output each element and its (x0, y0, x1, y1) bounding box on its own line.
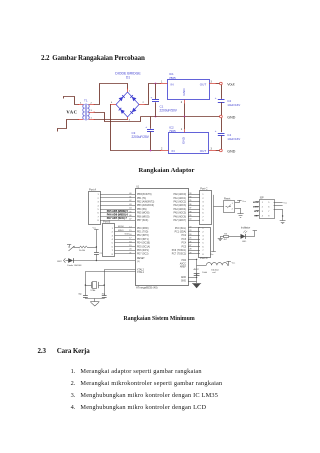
wire reset box pin2 down (235, 208, 241, 214)
svg-text:4: 4 (111, 102, 113, 104)
wire transformer top to bridge AC1 (95, 84, 128, 105)
heading 2.3 Cara Kerja (38, 347, 46, 355)
diode bridge pin numbers (111, 90, 145, 121)
svg-text:2: 2 (202, 198, 204, 200)
wires Port A to U1 (100, 195, 135, 221)
power VCC under Port D (210, 252, 216, 257)
svg-text:PC5: PC5 (182, 246, 187, 248)
list item 3 (71, 392, 76, 399)
svg-text:Port D: Port D (200, 256, 207, 260)
svg-text:3: 3 (112, 235, 114, 237)
svg-text:PB2 (AIN0/INT2): PB2 (AIN0/INT2) (137, 201, 154, 204)
svg-text:1: 1 (91, 117, 93, 119)
svg-text:3: 3 (97, 202, 99, 204)
svg-text:PD5 (OC1A): PD5 (OC1A) (137, 245, 150, 248)
wire U1 XTAL1 to crystal (86, 272, 136, 296)
svg-text:MISO: MISO (253, 206, 259, 208)
ISP right GND stub (274, 209, 284, 220)
resistor R1 reset (78, 246, 87, 252)
crystal X1 (85, 282, 105, 293)
U1 left pin numbers (129, 193, 132, 255)
svg-text:Port B: Port B (103, 220, 110, 224)
svg-text:10uH: 10uH (202, 272, 207, 274)
svg-text:+: + (215, 129, 217, 133)
power VCC AVCC (227, 261, 237, 265)
svg-text:XTAL1: XTAL1 (137, 271, 145, 274)
wire RC junction to resistor (87, 247, 96, 249)
wire crystal caps join (85, 299, 104, 302)
svg-text:2: 2 (262, 207, 264, 209)
svg-text:LED: LED (242, 241, 247, 243)
svg-text:GND: GND (181, 281, 186, 283)
wire bridge - output to IC2 IN (111, 105, 161, 151)
LED D3 (241, 230, 248, 243)
transformer pin numbers (80, 102, 93, 119)
wire resistor to switch (74, 247, 78, 249)
svg-text:coil: coil (212, 272, 216, 274)
wire resistor to LED D3 (229, 236, 241, 238)
svg-text:42: 42 (129, 200, 132, 202)
junction C1 top (155, 83, 157, 85)
wire U1 AVCC pin to node (188, 259, 197, 261)
inductor L1 (202, 263, 227, 274)
svg-text:PB4 (SS): PB4 (SS) (137, 209, 147, 211)
svg-text:5: 5 (202, 243, 204, 245)
svg-text:PD7 (OC2): PD7 (OC2) (137, 254, 149, 256)
op IC1 7805 regulator (168, 80, 210, 100)
svg-text:15: 15 (129, 230, 132, 232)
svg-text:RST: RST (254, 215, 259, 217)
svg-text:PA7 AD7 (SCK) 7: PA7 AD7 (SCK) 7 (107, 216, 128, 220)
svg-text:1: 1 (202, 228, 204, 230)
ground reset box (237, 214, 243, 218)
svg-text:PD6 (ICP1): PD6 (ICP1) (137, 250, 149, 252)
capacitor C1 value label (160, 105, 178, 113)
svg-text:3: 3 (211, 147, 213, 150)
connector J5 ISP (260, 200, 275, 219)
junction RC node (96, 246, 97, 247)
svg-text:PC7 (TOSC2): PC7 (TOSC2) (172, 254, 186, 256)
svg-text:4: 4 (202, 239, 204, 241)
junction reset node (96, 260, 97, 261)
svg-text:RESET: RESET (137, 258, 145, 260)
switch SW2 power box (224, 201, 235, 213)
svg-text:+: + (151, 96, 153, 100)
switch SW1 reset button (67, 245, 75, 251)
diode D2 1N4148 (65, 258, 82, 267)
svg-text:8: 8 (112, 254, 114, 256)
svg-text:PC4: PC4 (182, 243, 187, 245)
wire reset box pin1 to VCC (235, 202, 240, 204)
junction IC GND on rail (184, 116, 186, 118)
capacitor C5 reset (94, 253, 103, 256)
svg-text:2: 2 (112, 232, 114, 234)
svg-text:Reset: Reset (224, 198, 231, 201)
svg-text:10uF/16V: 10uF/16V (227, 137, 240, 141)
svg-text:2: 2 (91, 102, 93, 104)
svg-text:8: 8 (97, 220, 99, 222)
svg-text:6: 6 (112, 246, 114, 248)
svg-text:1: 1 (161, 80, 163, 83)
svg-text:30p: 30p (78, 294, 82, 296)
svg-text:PB5 (MOSI): PB5 (MOSI) (137, 213, 150, 215)
U1 right pin names (172, 193, 187, 283)
ground crystal (90, 302, 99, 307)
ISP right stub 2 (274, 205, 283, 207)
diode bridge D1 labels (115, 71, 141, 79)
wire LED to VCC (245, 236, 254, 238)
svg-text:R=10k: R=10k (79, 250, 86, 252)
svg-text:4k7: 4k7 (224, 239, 228, 241)
ground U1 AVCC (192, 284, 201, 289)
diode bridge pin stubs (110, 88, 146, 119)
svg-text:PB0/(XCK/T0): PB0/(XCK/T0) (137, 194, 152, 196)
wire IC1 OUT to Vout terminal (217, 83, 220, 85)
svg-text:35: 35 (189, 200, 192, 202)
capacitor C6 AREF (194, 274, 200, 276)
svg-text:PC6 (TOSC1): PC6 (TOSC1) (172, 250, 186, 252)
svg-text:GND: GND (181, 277, 186, 279)
wire GND column lower (221, 118, 223, 132)
op IC1 7805 regulator labels (169, 72, 176, 80)
svg-text:10uF/16V: 10uF/16V (227, 103, 240, 107)
wire transformer center tap to ground rail (95, 113, 141, 122)
wire reset box to VCC feed (214, 206, 224, 208)
caption Rangkaian Adaptor (139, 167, 195, 174)
wire IC1 GND pin to rail (184, 104, 186, 117)
svg-text:5: 5 (97, 209, 99, 211)
Port A pin numbers (97, 194, 99, 222)
svg-text:PD2 (INT0): PD2 (INT0) (137, 235, 149, 237)
ground ISP (280, 221, 286, 224)
svg-text:3: 3 (202, 202, 204, 204)
svg-text:4: 4 (97, 205, 99, 207)
svg-text:PA4 (ADC4): PA4 (ADC4) (174, 208, 187, 211)
wire VAC top terminal (64, 97, 79, 105)
svg-text:2: 2 (143, 102, 145, 104)
svg-text:1: 1 (202, 194, 204, 196)
svg-text:Port A: Port A (89, 187, 96, 191)
svg-text:PA6 (ADC6): PA6 (ADC6) (174, 215, 187, 218)
power VCC LED (253, 231, 257, 237)
capacitor C4 value label (227, 133, 240, 141)
svg-text:PB3 (AIN1/OC0): PB3 (AIN1/OC0) (137, 204, 154, 207)
wire AVCC vertical (196, 259, 198, 283)
svg-text:Vcc: Vcc (283, 203, 288, 205)
svg-text:ATmega8535 (40): ATmega8535 (40) (136, 285, 158, 289)
svg-text:1: 1 (262, 202, 264, 204)
svg-text:23: 23 (189, 230, 192, 232)
svg-text:T1: T1 (84, 99, 88, 103)
svg-text:PA0 (ADC0): PA0 (ADC0) (174, 193, 187, 196)
power VCC reset box (237, 200, 247, 203)
svg-text:PD1 (TXD): PD1 (TXD) (137, 232, 148, 234)
svg-text:+: + (215, 96, 217, 100)
svg-text:1: 1 (97, 194, 99, 196)
wires U1 GND pins (188, 277, 197, 282)
svg-text:8: 8 (202, 254, 204, 256)
Port B pin numbers (112, 228, 114, 256)
net labels on Port B wires (118, 226, 130, 235)
svg-text:PA1 (ADC1): PA1 (ADC1) (174, 197, 187, 200)
ground rail wire (141, 116, 220, 118)
IC2 pin stubs and numbers (160, 128, 217, 151)
svg-text:3: 3 (262, 211, 264, 213)
svg-text:Vcc: Vcc (232, 262, 237, 264)
caption Rangkaian Sistem Minimum (124, 316, 195, 322)
svg-text:PD0 (RXD): PD0 (RXD) (137, 228, 149, 230)
svg-text:U1: U1 (136, 186, 140, 189)
capacitor C4 (215, 129, 225, 149)
svg-text:Indikator: Indikator (241, 226, 250, 229)
svg-text:PC0 (SCL): PC0 (SCL) (175, 228, 186, 230)
wires U1 to Port D (188, 228, 200, 254)
svg-text:PC2: PC2 (182, 235, 187, 237)
power VCC above reset RC (93, 228, 99, 232)
transformer T1 pin stubs (78, 104, 95, 120)
svg-text:PB1 (T1): PB1 (T1) (137, 198, 146, 200)
svg-text:7: 7 (202, 216, 204, 218)
svg-text:PA3 (ADC3): PA3 (ADC3) (174, 204, 187, 207)
connector J4 Port D (199, 228, 211, 258)
svg-text:OUT: OUT (200, 149, 207, 153)
svg-text:4: 4 (262, 216, 264, 218)
svg-text:8: 8 (202, 220, 204, 222)
svg-text:MOSI: MOSI (118, 226, 124, 228)
svg-text:7: 7 (202, 250, 204, 252)
svg-text:Diode 1N4148: Diode 1N4148 (67, 265, 82, 267)
svg-text:PD4 (OC1B): PD4 (OC1B) (137, 243, 150, 245)
svg-text:2200uF/50V: 2200uF/50V (160, 109, 178, 113)
ISP right VCC stub (274, 203, 288, 205)
svg-text:GND: GND (182, 136, 186, 144)
Port C pin numbers (202, 194, 204, 222)
svg-text:Vcc: Vcc (210, 254, 215, 256)
capacitor C8 crystal right (102, 294, 107, 299)
svg-text:PD3 (INT1): PD3 (INT1) (137, 239, 149, 241)
wire branch to inductor (197, 265, 207, 267)
svg-text:3: 3 (211, 80, 213, 83)
wire ground to resistor R2 (220, 236, 224, 238)
svg-text:7: 7 (97, 216, 99, 218)
svg-text:MOSI: MOSI (253, 202, 259, 204)
ISP left net labels and stubs (253, 202, 259, 218)
wire vertical VCC feed right of Port C (213, 195, 215, 252)
svg-text:XTAL2: XTAL2 (137, 268, 145, 271)
svg-text:PA2 (ADC2): PA2 (ADC2) (174, 201, 187, 204)
svg-text:1: 1 (232, 203, 234, 205)
svg-text:AREF: AREF (180, 266, 187, 269)
svg-text:Vcc: Vcc (242, 201, 247, 203)
svg-text:Vout: Vout (227, 82, 234, 86)
junction C1 bottom on GND rail (155, 116, 157, 118)
wire reset line to U1 RESET pin (73, 260, 135, 262)
svg-text:XTAL: XTAL (90, 289, 96, 292)
resistor R2 LED (224, 233, 229, 241)
capacitor C7 crystal left (78, 294, 88, 299)
junction AVCC node (196, 259, 197, 260)
svg-text:8: 8 (268, 216, 270, 218)
svg-text:1: 1 (129, 90, 131, 92)
svg-text:1: 1 (181, 128, 183, 131)
svg-text:ISP: ISP (260, 196, 264, 199)
svg-text:7: 7 (112, 250, 114, 252)
svg-text:VAC: VAC (66, 110, 77, 115)
wire IC2 OUT to GND terminal (217, 150, 220, 152)
svg-text:PA7 (ADC7): PA7 (ADC7) (174, 219, 187, 222)
svg-text:AVCC: AVCC (194, 268, 200, 271)
svg-text:SCK: SCK (254, 211, 259, 213)
svg-text:5: 5 (112, 243, 114, 245)
IC1 pin stubs and numbers (160, 80, 217, 104)
list item 1 (71, 368, 76, 375)
ground LED (218, 236, 223, 240)
svg-text:2: 2 (161, 147, 163, 150)
connector J2 Port B (103, 224, 115, 257)
svg-text:6: 6 (202, 246, 204, 248)
svg-text:R3: R3 (224, 233, 228, 235)
net flag RST (57, 258, 65, 263)
svg-text:2: 2 (202, 232, 204, 234)
svg-text:4: 4 (202, 205, 204, 207)
svg-text:PC1 (SDA): PC1 (SDA) (175, 231, 187, 234)
U1 right pin numbers (189, 193, 192, 255)
wires U1 to Port C (188, 195, 200, 221)
wire transformer bottom to bridge AC2 (95, 119, 128, 121)
svg-text:6: 6 (202, 213, 204, 215)
svg-text:IN: IN (172, 149, 175, 153)
svg-text:PB6 (MISO): PB6 (MISO) (137, 216, 150, 218)
capacitor C3 (145, 117, 154, 151)
wires Port B to U1 (115, 228, 135, 254)
connector J3 Port C (200, 191, 212, 225)
capacitor C2 (215, 96, 225, 115)
wire U1 XTAL2 to crystal (105, 270, 136, 296)
svg-text:2: 2 (181, 101, 183, 104)
diode bridge D1 (116, 92, 139, 117)
svg-text:PB7 (SCK): PB7 (SCK) (137, 220, 148, 222)
svg-text:5: 5 (268, 202, 270, 204)
svg-text:2200uF/25V: 2200uF/25V (132, 135, 150, 139)
svg-text:1: 1 (112, 228, 114, 230)
svg-text:PA6 AD6 (MISO) 6: PA6 AD6 (MISO) 6 (107, 213, 129, 217)
capacitor C3 value label (132, 131, 150, 139)
svg-text:GND: GND (227, 115, 235, 119)
svg-text:2: 2 (232, 209, 234, 211)
svg-text:2: 2 (97, 198, 99, 200)
op IC2 7905 regulator labels (169, 125, 176, 133)
svg-text:RST: RST (57, 261, 62, 263)
heading 2.2 Gambar Rangakaian Percobaan (41, 54, 49, 62)
svg-text:GND: GND (227, 149, 235, 153)
wire bridge + output to IC1 IN (146, 84, 161, 105)
svg-text:4: 4 (112, 239, 114, 241)
wire IC2 GND pin to rail (184, 117, 186, 130)
svg-text:3: 3 (202, 235, 204, 237)
capacitor C2 value label (227, 99, 240, 107)
svg-text:5: 5 (202, 209, 204, 211)
U1 left pin names (137, 194, 154, 274)
svg-text:OUT: OUT (200, 82, 207, 86)
svg-text:D1: D1 (126, 76, 130, 80)
svg-text:GND: GND (182, 88, 186, 96)
wire VAC bottom terminal (58, 120, 79, 132)
capacitor C1 (151, 84, 160, 117)
Port D pin numbers (202, 228, 204, 256)
microcontroller U1 ATmega8535 (136, 189, 189, 286)
node GND terminal bottom (220, 149, 223, 152)
wire VCC down to RC junction (96, 232, 98, 252)
svg-text:MISO: MISO (118, 230, 124, 232)
svg-text:IN: IN (171, 82, 174, 86)
svg-text:Port C: Port C (200, 187, 207, 191)
junction C3 bottom (150, 150, 152, 152)
svg-text:6: 6 (97, 213, 99, 215)
transformer T1 (83, 104, 90, 121)
op IC2 7905 regulator (169, 133, 209, 154)
svg-text:4: 4 (80, 102, 82, 104)
svg-text:3: 3 (91, 110, 93, 112)
ISP pin numbers (262, 202, 270, 218)
node Vout terminal (220, 82, 223, 85)
svg-text:AVCC: AVCC (180, 262, 187, 265)
svg-text:PA5 AD5 (MOSI) 5: PA5 AD5 (MOSI) 5 (107, 209, 129, 213)
svg-text:6: 6 (268, 207, 270, 209)
svg-text:PA5 (ADC5): PA5 (ADC5) (174, 212, 187, 215)
net labels on Port A wires (107, 209, 129, 220)
svg-text:PC3: PC3 (182, 239, 187, 241)
connector J1 Port A (89, 192, 101, 225)
list item 4 (71, 404, 76, 411)
svg-text:7: 7 (268, 211, 270, 213)
node GND terminal middle (220, 115, 223, 118)
svg-text:Induktor: Induktor (211, 268, 219, 271)
list item 2 (71, 380, 76, 387)
svg-text:PD0: PD0 (182, 260, 187, 262)
wire Vout column upper (221, 85, 223, 99)
svg-text:+: + (145, 125, 147, 129)
svg-text:(9): (9) (137, 261, 140, 263)
wire C5 to reset line (96, 254, 98, 260)
